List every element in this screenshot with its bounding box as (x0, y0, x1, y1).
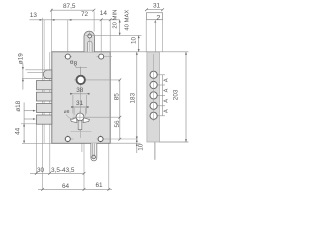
bottom tab slot (93, 143, 95, 157)
wire: extension line faceplate face x=42.6 (42, 18, 44, 190)
side view faceplate strip (147, 52, 160, 142)
bottom tab knob (92, 155, 96, 159)
svg-text:3,5-43,5: 3,5-43,5 (51, 167, 75, 174)
wire: extension line cylinder stem x=81.9 (81, 130, 83, 152)
hub axis horizontal line (74, 79, 120, 81)
dimension 87,5 (50, 9, 95, 12)
tab slot (88, 41, 93, 52)
svg-text:56: 56 (114, 120, 121, 128)
dim line 20MIN/40MAX x=119.7 (119, 20, 121, 36)
spindle hub (77, 76, 85, 84)
dimension 183 line x=136.8 (136, 52, 138, 139)
hub axis vertical line (80, 67, 82, 139)
tab hole (88, 34, 92, 38)
dimension 31 (145, 8, 164, 11)
A spacing dim line (162, 75, 164, 116)
svg-text:10: 10 (131, 36, 138, 44)
wire: extension line case right x=110.2 (109, 20, 111, 52)
wire: extension line case right bottom x=108.8 (108, 143, 110, 189)
svg-text:ø19: ø19 (17, 53, 24, 64)
strip hole 3 (150, 92, 165, 99)
wire: extension latch bottom y=81.6 (22, 78, 52, 80)
svg-text:10: 10 (137, 143, 144, 151)
svg-text:30: 30 (37, 167, 45, 174)
svg-text:A: A (164, 78, 170, 82)
keyhole centerline horizontal (73, 116, 120, 118)
strip hole 2 (150, 81, 165, 88)
wire: extension line teeth face x=36.3 (35, 124, 37, 174)
svg-text:20 MIN: 20 MIN (113, 10, 119, 29)
svg-text:31: 31 (153, 3, 161, 10)
deadbolt tooth 4 (36, 115, 51, 124)
svg-text:64: 64 (62, 183, 70, 190)
svg-text:61: 61 (96, 182, 104, 189)
side view verticals below box (154, 20, 156, 23)
keyhole circle (76, 113, 84, 121)
dimension 38 (70, 93, 90, 114)
wire: extension case bottom left y=143.2 (22, 142, 52, 144)
keyhole wing left (71, 118, 77, 123)
svg-text:ø18: ø18 (15, 100, 22, 111)
deadbolt tooth 2 (36, 92, 51, 101)
keyhole stem (78, 119, 82, 130)
latch bolt (43, 70, 51, 79)
square 8 label (71, 61, 87, 76)
svg-text:40 MAX: 40 MAX (125, 10, 131, 31)
deadbolt tooth 3 (36, 104, 51, 113)
svg-text:A: A (164, 99, 170, 103)
bottom tab below case (91, 143, 97, 161)
dimension 85 / 56 line x=119.8 (118, 79, 121, 141)
svg-text:183: 183 (129, 92, 136, 103)
svg-text:203: 203 (173, 89, 180, 100)
svg-text:31: 31 (76, 100, 84, 107)
lock case body (52, 52, 110, 144)
wire: extension line hole1 x=67.8 (67, 20, 69, 62)
svg-text:A: A (164, 109, 170, 113)
wire: extension line stem left x=78.1 (77, 130, 79, 143)
wire: extension latch axis y=74.9 (27, 71, 45, 73)
strip centerline vertical through holes (153, 54, 155, 121)
bottom fixing hole left (64, 135, 74, 143)
adjustable tab above case (84, 31, 94, 52)
side view: 31 section box (147, 13, 163, 20)
keyhole centerline vertical (79, 111, 81, 132)
dia 8 small label (64, 109, 74, 120)
svg-text:72: 72 (81, 11, 89, 18)
svg-text:A: A (164, 88, 170, 92)
svg-text:87,5: 87,5 (63, 3, 76, 10)
wire: extension tooth4 bottom y=123.3 (21, 123, 36, 125)
door edge tail below strip (154, 142, 156, 160)
top fixing hole left (64, 54, 72, 59)
strip hole 4 (150, 102, 165, 109)
deadbolt tooth 1 (36, 81, 51, 90)
wire: extension line hole2 x=101.2 (100, 20, 102, 60)
tab hole axis line y=36.45 (86, 34, 142, 36)
dimension row 30 / 3,5-43,5 (30, 172, 85, 175)
svg-text:14: 14 (100, 10, 108, 17)
tab centerline (89, 31, 91, 52)
wire: extension line case left x=51.4 (50, 9, 52, 52)
svg-text:ø8: ø8 (64, 109, 70, 115)
wire: case inner wall x=49.8 (49, 52, 51, 173)
dimension 10 bottom (110, 139, 140, 153)
svg-text:13: 13 (30, 12, 38, 19)
strip hole 1 (150, 71, 165, 78)
svg-text:38: 38 (76, 87, 84, 94)
bottom fixing hole right (97, 135, 139, 143)
wire: extension line tab right x=94.1 (93, 12, 95, 32)
svg-text:2: 2 (156, 13, 160, 22)
strip hole 5 (150, 112, 165, 119)
dimension row 64 / 61 (38, 188, 112, 191)
svg-text:44: 44 (15, 127, 22, 135)
wire: faceplate inner line x=44.1 (43, 20, 45, 143)
dimension 31 cylinder (71, 106, 89, 116)
svg-text:85: 85 (114, 93, 121, 101)
top fixing hole right (97, 54, 113, 59)
cylinder recess bottom line (71, 131, 92, 133)
wire: extension latch top y=69.3 (25, 69, 52, 71)
dimension line row y=19.8 (13 / 72 / 14) (30, 18, 120, 21)
keyhole wing right (83, 118, 89, 123)
